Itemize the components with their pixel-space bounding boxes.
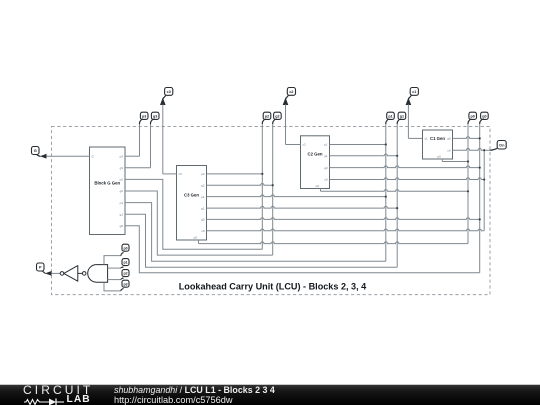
svg-text:g0: g0 bbox=[120, 224, 124, 228]
wire g3 rail bbox=[150, 124, 152, 168]
svg-text:p0: p0 bbox=[123, 246, 127, 250]
wire C3 c0 input bbox=[207, 229, 485, 231]
flag p1 (gate) bbox=[121, 259, 129, 269]
wire C3 g1 input bbox=[207, 206, 398, 208]
svg-text:g2: g2 bbox=[120, 189, 124, 193]
junction p0/C1 bbox=[467, 160, 469, 162]
wire gate input p0 (wrap top) bbox=[104, 256, 121, 265]
wire C3 g2 input bbox=[207, 184, 273, 186]
inverter bubble (NOT gate X2) bbox=[60, 272, 64, 276]
subcircuit U4 C1 Gen bbox=[423, 130, 453, 159]
junction g1/C3 bbox=[396, 207, 398, 209]
svg-text:p0: p0 bbox=[471, 114, 475, 118]
svg-text:g2: g2 bbox=[201, 183, 205, 187]
wire p3 to U1 bbox=[125, 155, 140, 157]
svg-text:Block G Gen: Block G Gen bbox=[94, 180, 120, 185]
flag p3 bbox=[140, 112, 149, 124]
wire p3 rail bbox=[139, 124, 141, 156]
wire C1 g0 input bbox=[453, 137, 480, 139]
nand output bubble (gate X1) bbox=[82, 272, 86, 276]
flag p1 bbox=[386, 112, 395, 124]
svg-text:p0: p0 bbox=[316, 184, 320, 188]
wire g2 rail bbox=[272, 124, 274, 255]
svg-text:p1: p1 bbox=[120, 201, 124, 205]
junction g0/C1 bbox=[479, 137, 481, 139]
wire c1 vertical bbox=[407, 105, 409, 139]
svg-text:p3: p3 bbox=[123, 282, 127, 286]
arrow output c2 bbox=[283, 98, 289, 106]
svg-text:p0: p0 bbox=[194, 236, 198, 240]
wire G output net bbox=[47, 155, 90, 157]
svg-text:C3 Gen: C3 Gen bbox=[184, 192, 199, 197]
wire C1 p0 run bbox=[442, 161, 468, 163]
wire C2 c0 input bbox=[330, 178, 485, 180]
wire C2 p1 input bbox=[330, 144, 386, 146]
flag p3 (gate) bbox=[121, 280, 129, 291]
wire gate input p3 (wrap bottom) bbox=[104, 282, 121, 291]
wire C2 p0 drop bbox=[320, 189, 322, 192]
wire C2 p0 run bbox=[321, 190, 469, 192]
junction c0/Cin bbox=[483, 149, 485, 151]
flag c3 bbox=[163, 88, 173, 100]
svg-text:C1 Gen: C1 Gen bbox=[430, 136, 445, 141]
svg-text:p2: p2 bbox=[123, 272, 127, 276]
wire g1 rail bbox=[396, 124, 398, 267]
svg-text:g0: g0 bbox=[201, 218, 205, 222]
wire p2 rail bbox=[261, 124, 263, 249]
svg-text:c1: c1 bbox=[412, 90, 416, 94]
dashed group border (LCU blocks 2-4) bbox=[52, 127, 491, 295]
wire g0 rail bbox=[479, 124, 481, 273]
svg-text:Cin: Cin bbox=[499, 143, 504, 147]
svg-text:P: P bbox=[39, 265, 42, 270]
wire C2 g0 input bbox=[330, 166, 480, 168]
subcircuit U3 C2 Gen bbox=[301, 136, 330, 189]
svg-text:p1: p1 bbox=[324, 143, 328, 147]
svg-text:g3: g3 bbox=[153, 114, 157, 118]
svg-text:c1: c1 bbox=[425, 137, 429, 141]
flag P bbox=[37, 263, 46, 273]
svg-text:g1: g1 bbox=[120, 212, 124, 216]
logo resistor symbol bbox=[24, 399, 49, 404]
wire g2 net routing (U1 g2) bbox=[125, 191, 273, 255]
svg-text:g1: g1 bbox=[201, 206, 205, 210]
wire c2 to U3 bbox=[286, 144, 301, 146]
svg-text:c0: c0 bbox=[447, 148, 451, 152]
svg-text:C2 Gen: C2 Gen bbox=[307, 152, 322, 157]
flag p2 bbox=[262, 112, 271, 124]
svg-text:g1: g1 bbox=[400, 114, 404, 118]
junction p2/C3 bbox=[261, 173, 263, 175]
flag c2 bbox=[286, 88, 296, 100]
svg-text:c3: c3 bbox=[167, 90, 171, 94]
wire Cin to U4 c0 bbox=[453, 149, 490, 151]
junction g1/C2 bbox=[396, 155, 398, 157]
svg-text:p2: p2 bbox=[265, 114, 269, 118]
subcircuit U2 C3 Gen bbox=[177, 166, 207, 241]
flag g1 bbox=[397, 112, 406, 124]
junction p1/C3 bbox=[385, 196, 387, 198]
svg-text:c2: c2 bbox=[289, 90, 293, 94]
flag G bbox=[32, 147, 41, 157]
svg-text:g0: g0 bbox=[324, 166, 328, 170]
inverter triangle (NOT gate X2) bbox=[64, 266, 78, 282]
wire triangle to bubble bbox=[78, 272, 83, 274]
svg-text:p1: p1 bbox=[123, 261, 127, 265]
wire c3 vertical bbox=[162, 105, 164, 174]
wire P output net bbox=[52, 272, 61, 274]
wire C1 p0 drop bbox=[441, 159, 443, 162]
svg-text:c0: c0 bbox=[324, 178, 328, 182]
wire C3 p2 input bbox=[207, 173, 263, 175]
junction g0/C2 bbox=[479, 167, 481, 169]
wire c2 vertical bbox=[285, 105, 287, 145]
wire c3 to U2 bbox=[163, 173, 177, 175]
wire p0 rail bbox=[467, 124, 469, 244]
wire g3 to U1 bbox=[125, 167, 151, 169]
footer bar bbox=[0, 384, 540, 405]
logo diode symbol bbox=[49, 398, 56, 405]
wire C3 p0 run bbox=[199, 242, 469, 244]
nand gate body (gate X1) bbox=[88, 265, 108, 283]
wire p1 rail bbox=[385, 124, 387, 261]
flag g2 bbox=[273, 112, 282, 124]
svg-text:g2: g2 bbox=[275, 114, 279, 118]
junction g2/C3 bbox=[272, 184, 274, 186]
wire p1 net routing (U1 p1) bbox=[125, 203, 386, 262]
wire g1 net routing (U1 g1) bbox=[125, 214, 397, 267]
svg-text:p3: p3 bbox=[142, 114, 146, 118]
svg-text:c2: c2 bbox=[303, 143, 307, 147]
flag g3 bbox=[151, 112, 160, 124]
junction p1/C2 bbox=[385, 143, 387, 145]
arrow flag G bbox=[40, 154, 47, 159]
svg-text:p1: p1 bbox=[201, 195, 205, 199]
svg-text:G: G bbox=[34, 148, 37, 153]
svg-text:g0: g0 bbox=[447, 137, 451, 141]
wire p2 net routing (U1 p2) bbox=[125, 179, 262, 249]
flag p2 (gate) bbox=[121, 270, 129, 280]
flag g0 bbox=[480, 112, 489, 124]
svg-text:p1: p1 bbox=[388, 114, 392, 118]
wire Cin rail bbox=[483, 150, 485, 230]
wire g0 net routing (U1 g0) bbox=[125, 226, 480, 273]
wire C2 g1 input bbox=[330, 154, 398, 156]
flag Cin bbox=[490, 141, 507, 151]
arrow output c3 bbox=[160, 98, 166, 106]
svg-text:g1: g1 bbox=[324, 154, 328, 158]
svg-text:p3: p3 bbox=[120, 154, 124, 158]
svg-text:p2: p2 bbox=[201, 172, 205, 176]
flag c1 bbox=[408, 88, 418, 100]
junction c0/C2 bbox=[483, 178, 485, 180]
svg-text:c3: c3 bbox=[179, 172, 183, 176]
wire gate input p2 bbox=[108, 279, 121, 281]
arrow output c1 bbox=[406, 98, 412, 106]
junction g0/C3 bbox=[479, 218, 481, 220]
arrow flag P bbox=[45, 271, 52, 276]
svg-text:p2: p2 bbox=[120, 178, 124, 182]
svg-text:p0: p0 bbox=[437, 155, 441, 159]
flag p0 bbox=[468, 112, 477, 124]
svg-text:Lookahead Carry Unit (LCU) - B: Lookahead Carry Unit (LCU) - Blocks 2, 3… bbox=[179, 282, 367, 292]
wire gate input p1 bbox=[108, 267, 121, 269]
wire c1 to U4 bbox=[408, 137, 422, 139]
junction p0/C2 bbox=[467, 190, 469, 192]
subcircuit U1 Block G Gen bbox=[90, 147, 126, 235]
wire C3 g0 input bbox=[207, 218, 480, 220]
svg-text:c0: c0 bbox=[201, 229, 205, 233]
CircuitLab logo bbox=[23, 386, 98, 395]
flag p0 (gate) bbox=[121, 244, 129, 255]
footer text bbox=[114, 386, 275, 405]
svg-text:g0: g0 bbox=[482, 114, 486, 118]
wire C3 p0 input bbox=[198, 240, 200, 244]
wire C3 p1 input bbox=[207, 195, 386, 197]
svg-text:g3: g3 bbox=[120, 166, 124, 170]
